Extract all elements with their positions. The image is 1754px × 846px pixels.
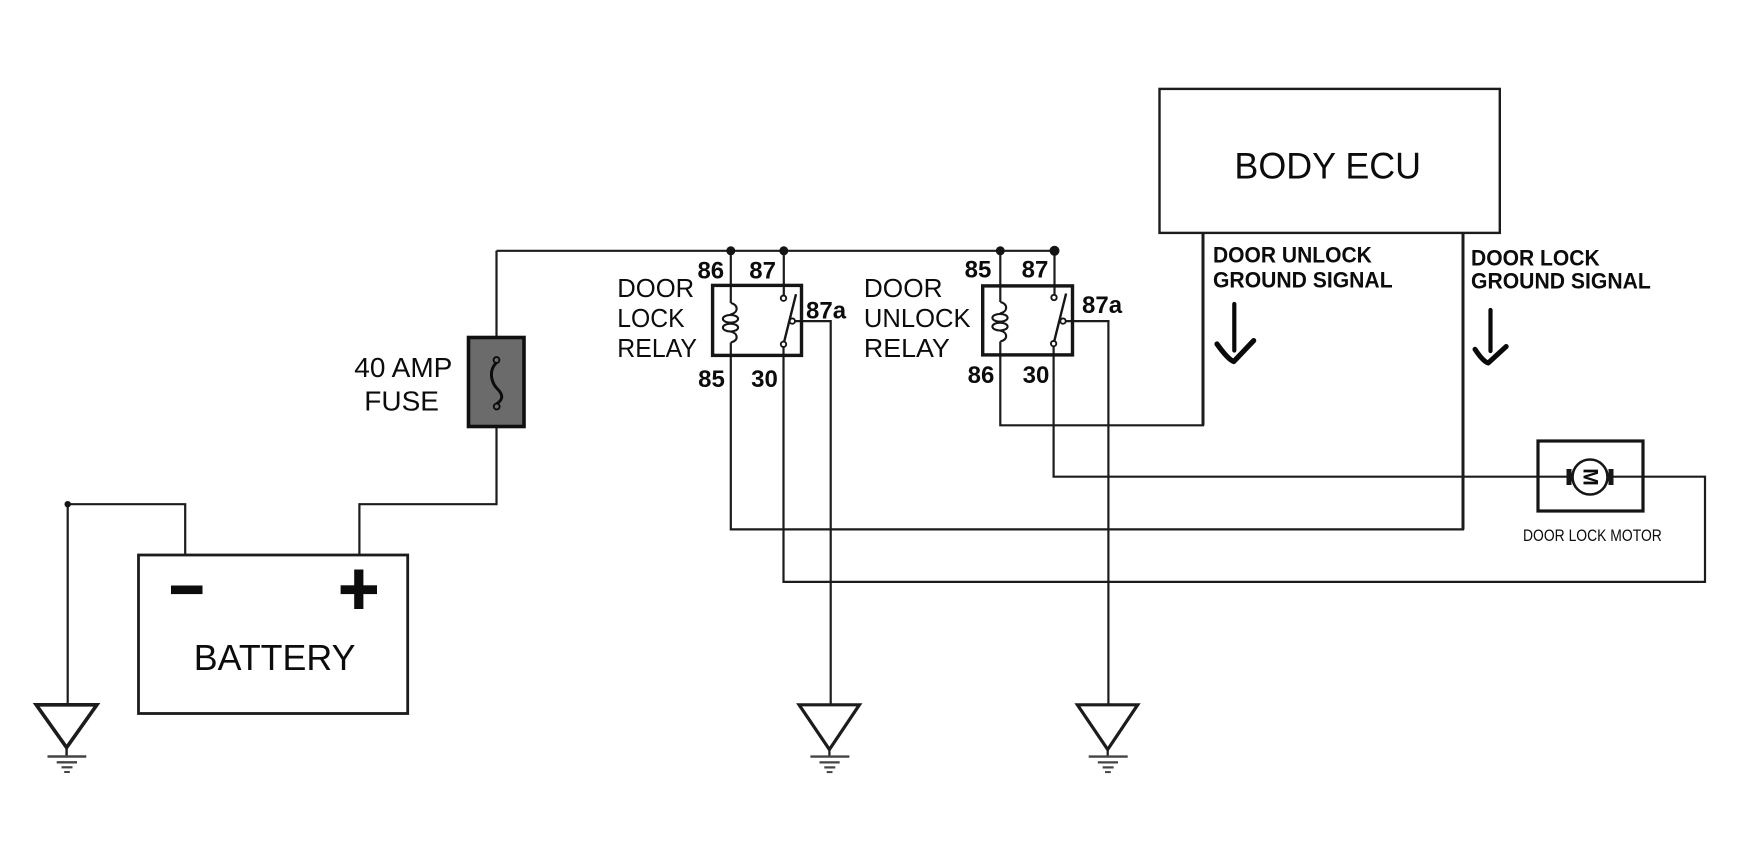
svg-text:GROUND SIGNAL: GROUND SIGNAL [1213,268,1393,293]
svg-text:87: 87 [749,258,776,285]
svg-text:30: 30 [1023,362,1050,389]
svg-text:85: 85 [698,366,725,393]
svg-text:87: 87 [1022,257,1049,284]
svg-text:86: 86 [697,258,724,285]
svg-text:GROUND SIGNAL: GROUND SIGNAL [1471,269,1651,294]
svg-text:RELAY: RELAY [617,333,697,363]
svg-text:M: M [1579,468,1602,486]
svg-text:DOOR LOCK MOTOR: DOOR LOCK MOTOR [1523,526,1662,545]
svg-text:LOCK: LOCK [617,303,685,333]
svg-text:FUSE: FUSE [364,385,439,416]
svg-text:DOOR LOCK: DOOR LOCK [1471,246,1600,271]
svg-text:BATTERY: BATTERY [194,637,356,678]
svg-text:DOOR: DOOR [617,273,694,303]
svg-text:UNLOCK: UNLOCK [864,303,971,333]
svg-text:85: 85 [965,257,992,284]
svg-text:DOOR UNLOCK: DOOR UNLOCK [1213,243,1372,268]
svg-text:BODY ECU: BODY ECU [1234,146,1421,187]
svg-text:RELAY: RELAY [864,333,950,363]
svg-text:87a: 87a [806,298,847,325]
svg-text:86: 86 [968,362,995,389]
svg-text:DOOR: DOOR [864,273,943,303]
svg-text:87a: 87a [1082,292,1123,319]
svg-text:40 AMP: 40 AMP [354,352,452,383]
svg-text:30: 30 [751,366,778,393]
